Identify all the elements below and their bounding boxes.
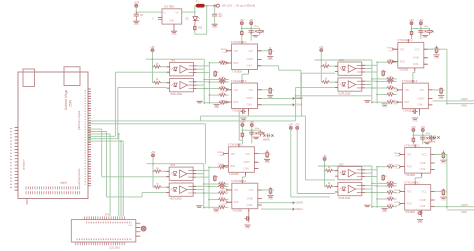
svg-text:+5V: +5V: [295, 124, 300, 127]
svg-text:TXD0: TXD0: [394, 165, 400, 167]
svg-text:COM: COM: [222, 103, 227, 105]
opto ground 2: [364, 101, 370, 103]
Arduino left pin row: [15, 128, 18, 191]
net label stub IC6: [226, 189, 228, 191]
svg-text:COM: COM: [393, 103, 398, 105]
svg-text:TXD: TXD: [407, 192, 412, 194]
svg-text:GND: GND: [417, 222, 422, 224]
pull-up resistor h3: [386, 185, 394, 188]
pull-up resistor h2: [386, 77, 394, 80]
svg-text:TXD: TXD: [234, 90, 239, 92]
pull-up resistor h5: [218, 198, 226, 201]
svg-text:+5V: +5V: [409, 19, 414, 22]
opto +5V supply OK5: [152, 154, 155, 157]
svg-text:CANH1: CANH1: [295, 97, 303, 100]
svg-text:VCC: VCC: [245, 154, 250, 156]
svg-text:HCPL2630: HCPL2630: [170, 198, 183, 201]
pull-up resistor h4: [386, 191, 394, 194]
svg-text:+5V: +5V: [240, 121, 245, 124]
net label stub IC8: [399, 190, 401, 192]
svg-text:Arduino Mega: Arduino Mega: [64, 90, 68, 110]
cluster pad crosses: [255, 30, 257, 32]
opto output wires OK8: [365, 185, 377, 187]
bus wire to C rail: [88, 123, 205, 125]
svg-text:OK7: OK7: [339, 163, 345, 166]
connector J2 right pins: [136, 223, 141, 236]
supply +5V rail IC5: [241, 127, 243, 144]
svg-text:COM: COM: [388, 50, 393, 52]
opto ground 2: [364, 205, 370, 207]
svg-text:CANH3: CANH3: [295, 202, 303, 205]
bus row 5: [88, 138, 118, 140]
cluster ground: [252, 35, 258, 37]
optocoupler OK1: [170, 63, 194, 76]
Arduino bottom header ticks: [26, 186, 80, 189]
opto +5V rail: [152, 52, 154, 83]
CAN transceiver IC6: [232, 183, 258, 209]
opto output wires OK4: [365, 80, 377, 82]
wire green loop around LED: [194, 12, 196, 17]
inline resistor vertical: [241, 133, 244, 136]
connector J2 bottom pins: [76, 242, 124, 245]
svg-text:OK1: OK1: [171, 59, 177, 62]
net label stub IC5: [223, 153, 225, 155]
svg-text:TJA1050: TJA1050: [398, 69, 408, 72]
LED LED5V: [193, 17, 198, 21]
svg-text:+5V: +5V: [151, 151, 156, 154]
svg-text:RXD1: RXD1: [221, 188, 228, 190]
wire column A to column C: [238, 112, 240, 141]
svg-text:RXD: RXD: [234, 102, 239, 104]
inline resistor vertical: [412, 138, 415, 141]
connector J2 inner top labels: [86, 222, 132, 224]
svg-text:TJA1050: TJA1050: [232, 210, 242, 213]
ground below C9: [212, 24, 218, 26]
bus riser J2 mid: [120, 141, 122, 216]
pull-up resistor h3: [386, 80, 394, 83]
svg-text:CANH: CANH: [243, 161, 250, 164]
svg-text:COM: COM: [395, 156, 400, 158]
svg-text:JP2: JP2: [105, 214, 110, 217]
connector J2 inner bottom labels: [77, 238, 133, 240]
svg-text:GND: GND: [268, 59, 273, 61]
term ground IC2: [267, 96, 273, 98]
pull-up resistor h1: [218, 61, 226, 64]
svg-text:COM: COM: [219, 155, 224, 157]
CAN transceiver IC5: [228, 147, 254, 173]
regulator ground pin wire: [173, 24, 175, 31]
svg-text:CANL: CANL: [420, 168, 427, 171]
CAN transceiver IC1: [232, 44, 258, 70]
svg-text:VCC: VCC: [422, 192, 427, 194]
supply +5V second IC3: [419, 22, 422, 25]
opto +5V supply OK7: [323, 158, 326, 161]
opto output wires OK7: [365, 169, 377, 171]
capacitor C8 input filter: [134, 14, 139, 16]
bus row 2: [88, 131, 107, 133]
CAN transceiver IC4: [402, 83, 428, 109]
svg-text:communication: communication: [77, 168, 81, 186]
svg-text:+5V: +5V: [322, 155, 327, 158]
svg-text:TJA1050: TJA1050: [405, 211, 415, 214]
svg-text:CANL: CANL: [461, 105, 468, 108]
CAN transceiver IC2: [232, 83, 258, 109]
resistor R input OK1: [153, 65, 161, 68]
svg-text:6 TX/CAN C.2: 6 TX/CAN C.2: [397, 39, 413, 42]
CAN wires: [428, 48, 447, 50]
svg-text:CANL: CANL: [247, 204, 254, 207]
CAN wires: [258, 202, 293, 204]
opto +5V supply OK3: [320, 49, 323, 52]
supply circle mid D1: [289, 126, 292, 129]
svg-text:6 TX/CAN H.2: 6 TX/CAN H.2: [404, 181, 420, 184]
svg-text:LED: LED: [185, 19, 190, 21]
wire regulator output: [182, 11, 195, 13]
svg-text:TJA1050: TJA1050: [403, 109, 413, 112]
svg-text:COM: COM: [395, 168, 400, 170]
net label stub IC1: [226, 50, 228, 52]
crystal below column: [412, 109, 418, 113]
resistor R input OK5: [154, 170, 162, 173]
bus row 3: [88, 133, 110, 135]
inline resistor vertical: [241, 31, 244, 34]
term ground IC5: [264, 159, 270, 161]
svg-text:TXD0: TXD0: [387, 60, 393, 62]
svg-text:TJA1050: TJA1050: [405, 174, 415, 177]
cluster ground: [422, 35, 428, 37]
term resistor IC2: [269, 88, 272, 93]
pull-up resistor h6: [386, 101, 394, 104]
decoupling cap 1: [420, 137, 425, 139]
svg-text:GND: GND: [412, 121, 417, 123]
svg-text:LCD 16x2: LCD 16x2: [109, 246, 120, 249]
svg-text:CANH: CANH: [461, 204, 468, 207]
svg-text:CANH: CANH: [461, 98, 468, 101]
svg-text:CANL: CANL: [247, 65, 254, 68]
svg-text:VCC: VCC: [249, 90, 254, 92]
term resistor IC4: [440, 89, 443, 94]
svg-text:+5V: +5V: [289, 124, 294, 127]
power jack rect: [64, 67, 80, 86]
connector J2 top pins: [85, 216, 125, 219]
svg-text:OK3: OK3: [339, 59, 345, 62]
svg-text:16MHz: 16MHz: [429, 141, 437, 143]
wire between stacked ICs: [244, 176, 246, 177]
Arduino bottom stub: [26, 199, 28, 205]
svg-text:CANL3: CANL3: [295, 208, 303, 211]
optocoupler OK2: [170, 79, 194, 92]
inline resistor vertical: [410, 31, 413, 34]
optocoupler OK3: [338, 62, 362, 75]
pull-up resistor vertical: [382, 71, 385, 75]
bus row 4: [88, 135, 115, 137]
term resistor IC8: [442, 190, 445, 195]
svg-text:GND: GND: [214, 107, 219, 109]
decoupling cap 1: [249, 132, 254, 134]
svg-text:VCC: VCC: [415, 49, 420, 51]
opto +5V rail: [320, 52, 322, 83]
svg-text:TXD: TXD: [400, 49, 405, 51]
cluster ground: [253, 137, 259, 139]
svg-text:COM: COM: [395, 205, 400, 207]
svg-text:GND: GND: [441, 200, 446, 202]
supply +5V IC1: [240, 22, 243, 25]
opto Vcc vertical rails: [371, 166, 373, 208]
pull-up resistor h3: [218, 81, 226, 84]
svg-text:CANL: CANL: [243, 167, 250, 170]
svg-text:CANH: CANH: [420, 162, 427, 165]
optocoupler OK8: [338, 182, 362, 195]
svg-text:CANL: CANL: [420, 205, 427, 208]
opto output wires OK5: [196, 169, 209, 171]
cluster pad crosses: [425, 30, 427, 32]
svg-text:VI: VI: [164, 12, 167, 14]
svg-text:OK5: OK5: [170, 164, 176, 167]
pull-up resistor h5: [386, 198, 394, 201]
USB connector rect: [23, 69, 35, 87]
svg-text:RXD1: RXD1: [394, 190, 401, 192]
term ground IC1: [267, 57, 273, 59]
opto output wires OK6: [196, 185, 209, 187]
pull-up resistor h6: [218, 206, 226, 209]
supply +5V rail IC7: [412, 132, 414, 145]
svg-text:TXD1: TXD1: [392, 101, 398, 103]
net label stub IC7: [399, 153, 401, 155]
supply +5V second IC1: [250, 22, 253, 25]
svg-text:VCC: VCC: [249, 190, 254, 192]
svg-text:PWM and digital: PWM and digital: [77, 110, 81, 130]
supply +5V second IC7: [421, 129, 424, 132]
cluster ground: [424, 142, 430, 144]
wire +12V to regulator input: [135, 7, 137, 12]
svg-text:GND: GND: [434, 58, 439, 60]
pull-up resistor h4: [218, 87, 226, 90]
opto ground 1: [214, 105, 220, 107]
svg-text:TJA1050: TJA1050: [229, 173, 239, 176]
term resistor IC1: [269, 49, 272, 54]
net label stub IC3: [392, 48, 394, 50]
svg-text:CANL: CANL: [247, 104, 254, 107]
svg-text:GND: GND: [382, 211, 387, 213]
opto output wires OK3: [365, 64, 377, 66]
svg-text:RXD: RXD: [400, 61, 405, 63]
term ground IC3: [433, 55, 439, 57]
svg-text:TXD: TXD: [234, 190, 239, 192]
ground below regulator: [171, 31, 177, 33]
svg-text:GND: GND: [214, 212, 219, 214]
Arduino left pin labels: [10, 128, 12, 190]
opto output wires OK2: [197, 81, 210, 83]
svg-text:TXD: TXD: [230, 154, 235, 156]
crystal below column: [245, 216, 251, 220]
bus row 6: [88, 140, 123, 142]
svg-text:COM: COM: [222, 91, 227, 93]
svg-text:IC9 7805: IC9 7805: [164, 6, 175, 9]
svg-text:RXD0: RXD0: [387, 48, 394, 50]
svg-text:+12V: +12V: [133, 2, 139, 5]
bus wire jog upper: [201, 115, 306, 117]
Arduino Mega 2560 body: [18, 72, 88, 199]
svg-text:GND: GND: [441, 163, 446, 165]
svg-text:+5V: +5V: [319, 46, 324, 49]
svg-text:GND: GND: [245, 228, 250, 230]
pad cross on +5V line: [214, 5, 216, 7]
CAN transceiver IC8: [405, 185, 431, 211]
pull-up resistor h1: [386, 165, 394, 168]
svg-text:COM: COM: [222, 191, 227, 193]
svg-text:COM: COM: [219, 167, 224, 169]
svg-text:CANH: CANH: [417, 97, 424, 100]
svg-text:CANL: CANL: [413, 63, 420, 66]
svg-text:6 TX/CAN E.2: 6 TX/CAN E.2: [228, 144, 244, 147]
cluster pad crosses: [426, 137, 428, 139]
svg-text:GND: GND: [169, 21, 174, 23]
cluster pad crosses: [255, 132, 257, 134]
svg-text:RXD: RXD: [234, 63, 239, 65]
svg-text:+5V: +5V: [419, 19, 424, 22]
svg-text:HCPL2630: HCPL2630: [170, 93, 183, 96]
svg-text:COM: COM: [222, 52, 227, 54]
opto output wires OK1: [197, 65, 210, 67]
svg-text:GND: GND: [439, 98, 444, 100]
fuse F1: [196, 4, 204, 7]
svg-text:CANL1: CANL1: [295, 104, 303, 107]
lamp LED symbol at J2: [141, 226, 146, 231]
optocoupler OK7: [338, 167, 362, 180]
resistor R input OK6: [154, 186, 162, 189]
bus wire under opto B: [296, 95, 372, 97]
crystal 16MHz cluster: [263, 134, 265, 136]
Arduino right pin row: [88, 89, 91, 186]
CAN transceiver IC7: [405, 148, 431, 174]
svg-text:CANH: CANH: [420, 199, 427, 202]
wire mid supply to opto D2: [296, 129, 298, 193]
svg-text:+5V: +5V: [421, 126, 426, 129]
supply +5V second IC5: [250, 124, 253, 127]
svg-text:CANH: CANH: [247, 97, 254, 100]
svg-text:6 TX/CAN A.2: 6 TX/CAN A.2: [231, 41, 247, 44]
term resistor IC5: [266, 152, 269, 157]
wire between stacked ICs: [421, 176, 423, 177]
bus row 1: [88, 128, 102, 130]
junction after fuse: [206, 5, 208, 7]
resistor R input OK3: [322, 65, 330, 68]
svg-text:CANH: CANH: [247, 58, 254, 61]
svg-text:6 TX/CAN D.2: 6 TX/CAN D.2: [402, 80, 418, 83]
resistor R input OK7: [325, 169, 333, 172]
optocoupler OK5: [169, 167, 193, 180]
resistor R input OK4: [322, 81, 330, 84]
CAN wires: [434, 153, 447, 155]
term ground IC8: [440, 197, 446, 199]
opto ground 2: [196, 206, 202, 208]
svg-text:RXD: RXD: [404, 102, 409, 104]
svg-text:VCC: VCC: [419, 90, 424, 92]
resistor R input OK8: [325, 185, 333, 188]
pull-up resistor vertical: [214, 176, 217, 180]
svg-text:GND: GND: [171, 34, 176, 36]
svg-text:+5V (12V → 5V up to 500mA): +5V (12V → 5V up to 500mA): [222, 4, 256, 8]
opto Vcc vertical rails: [203, 59, 205, 104]
decoupling cap 2: [429, 137, 434, 139]
wire loop regulator output up to fuse: [194, 6, 196, 12]
pull-up resistor h5: [386, 93, 394, 96]
wire between stacked ICs: [248, 73, 250, 74]
svg-text:RXD: RXD: [230, 166, 235, 168]
svg-text:16MHz: 16MHz: [263, 139, 271, 141]
svg-text:COM: COM: [393, 91, 398, 93]
term ground IC6: [267, 196, 273, 198]
CAN wires: [261, 65, 279, 67]
capacitor C9 output filter: [212, 14, 217, 16]
svg-text:TXD: TXD: [404, 90, 409, 92]
crystal below column: [241, 109, 247, 113]
opto +5V rail: [324, 161, 326, 187]
svg-text:100n: 100n: [254, 128, 260, 130]
pull-up resistor h5: [218, 94, 226, 97]
opto ground 1: [382, 208, 388, 210]
net label stub IC4: [397, 89, 399, 91]
svg-text:COM: COM: [222, 203, 227, 205]
svg-text:2560: 2560: [69, 100, 73, 107]
connector J2 body: [71, 220, 136, 242]
optocoupler OK4: [338, 78, 362, 91]
svg-text:GND: GND: [268, 198, 273, 200]
svg-text:COM: COM: [222, 64, 227, 66]
svg-text:GND: GND: [265, 162, 270, 164]
opto +5V rail: [152, 157, 154, 187]
svg-text:TXD0: TXD0: [221, 61, 227, 63]
pull-up resistor h1: [218, 166, 226, 169]
wire mid supply to D lower: [290, 129, 292, 197]
svg-text:digital: digital: [60, 181, 67, 185]
pull-up resistor h3: [218, 185, 226, 188]
svg-text:HCPL2630: HCPL2630: [338, 93, 351, 96]
svg-text:GND: GND: [212, 27, 217, 29]
svg-text:GND: GND: [134, 24, 139, 26]
pull-up resistor h2: [218, 78, 226, 81]
svg-text:GND: GND: [382, 107, 387, 109]
opto ground 2: [197, 101, 203, 103]
term ground IC4: [438, 96, 444, 98]
svg-text:RXD: RXD: [234, 202, 239, 204]
supply circle mid D2: [296, 126, 299, 129]
pull-up resistor vertical: [382, 176, 385, 180]
svg-text:CANL: CANL: [417, 104, 424, 107]
pull-up resistor h6: [386, 205, 394, 208]
svg-text:100n: 100n: [425, 133, 431, 135]
svg-text:RXD0: RXD0: [218, 152, 225, 154]
power supply +12V symbol: [135, 4, 138, 7]
decoupling cap 1: [418, 30, 423, 32]
optocoupler OK6: [169, 183, 193, 196]
pull-up resistor h1: [386, 61, 394, 64]
opto ground 1: [382, 104, 388, 106]
pull-up resistor h6: [218, 101, 226, 104]
svg-text:RXD: RXD: [407, 204, 412, 206]
supply +5V IC5: [241, 124, 244, 127]
term ground IC7: [440, 160, 446, 162]
pull-up resistor h4: [218, 192, 226, 195]
supply +5V IC3: [410, 22, 413, 25]
svg-text:CANL: CANL: [461, 211, 468, 214]
svg-text:TXD: TXD: [407, 155, 412, 157]
svg-text:TXD1: TXD1: [394, 202, 400, 204]
ground below C8: [133, 21, 139, 23]
svg-text:CANH: CANH: [413, 57, 420, 60]
svg-text:6 TX/CAN G.2: 6 TX/CAN G.2: [404, 144, 420, 147]
wire between stacked ICs: [414, 71, 416, 72]
